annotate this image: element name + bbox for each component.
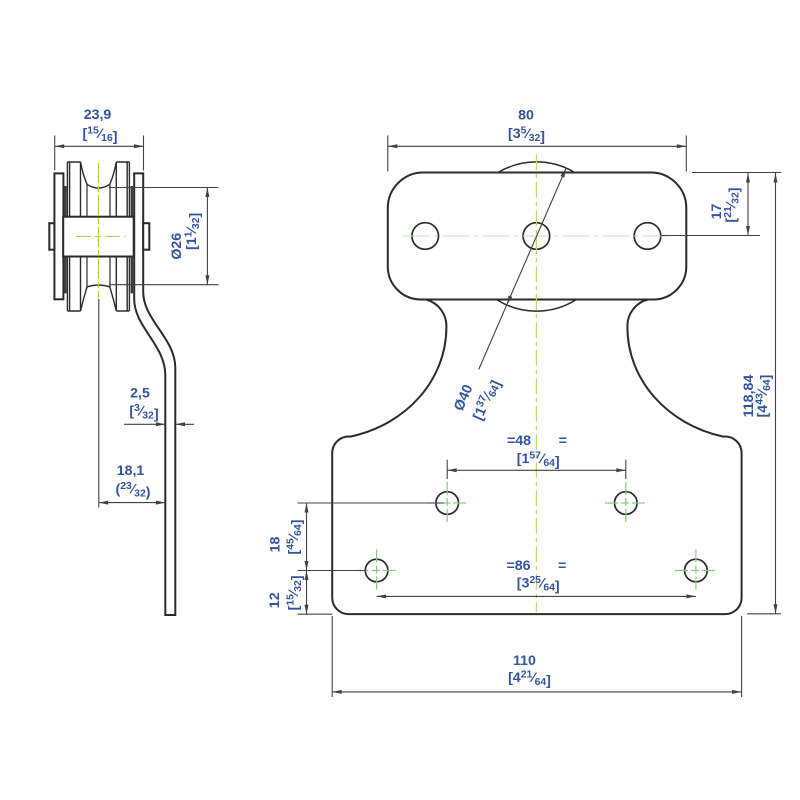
- svg-text:Ø26: Ø26: [169, 233, 185, 260]
- svg-text:2,5: 2,5: [130, 386, 150, 402]
- svg-text:=48: =48: [507, 433, 531, 449]
- svg-text:=86: =86: [506, 558, 530, 574]
- svg-text:12: 12: [267, 592, 283, 608]
- svg-text:=: =: [558, 558, 566, 574]
- svg-text:=: =: [559, 433, 567, 449]
- svg-text:18: 18: [268, 537, 284, 553]
- svg-text:18,1: 18,1: [117, 463, 145, 479]
- svg-text:110: 110: [513, 653, 536, 669]
- svg-text:80: 80: [518, 108, 534, 124]
- svg-text:23,9: 23,9: [84, 107, 112, 123]
